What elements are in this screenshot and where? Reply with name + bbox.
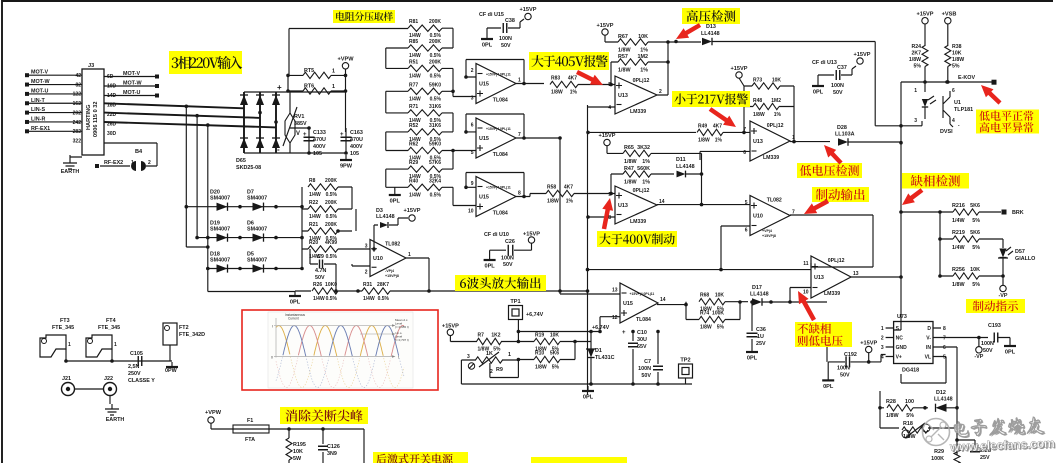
svg-text:8: 8 [943, 326, 946, 332]
svg-text:SM4007: SM4007 [210, 258, 230, 264]
svg-text:R29: R29 [934, 449, 944, 455]
svg-text:5K6: 5K6 [970, 203, 980, 209]
svg-text:1%: 1% [570, 90, 578, 96]
svg-text:1: 1 [131, 160, 134, 166]
svg-text:+15VPj4 0PLj11: +15VPj4 0PLj11 [486, 186, 511, 190]
svg-text:R29: R29 [409, 160, 418, 166]
svg-text:U15: U15 [479, 82, 489, 88]
svg-text:LIN-S: LIN-S [31, 107, 45, 113]
svg-text:LM339: LM339 [630, 109, 646, 115]
svg-text:10: 10 [803, 290, 809, 296]
svg-text:5%: 5% [493, 347, 501, 353]
svg-text:E-KOV: E-KOV [958, 75, 975, 81]
svg-text:TL431C: TL431C [595, 355, 615, 361]
svg-text:4: 4 [608, 105, 611, 111]
svg-text:R47: R47 [624, 166, 634, 172]
svg-text:R24: R24 [911, 44, 921, 50]
svg-text:RT6: RT6 [304, 84, 314, 90]
svg-text:4K7: 4K7 [713, 123, 722, 129]
svg-text:0.5%: 0.5% [430, 73, 442, 79]
svg-text:10D: 10D [107, 84, 117, 90]
svg-text:105: 105 [313, 151, 322, 157]
svg-text:1/8W: 1/8W [903, 434, 916, 440]
svg-text:1/8W: 1/8W [698, 137, 710, 143]
svg-text:EARTH: EARTH [106, 417, 125, 423]
svg-text:100N: 100N [638, 366, 651, 372]
svg-text:6: 6 [743, 150, 746, 156]
svg-text:31K6: 31K6 [429, 104, 441, 110]
svg-text:1: 1 [508, 352, 511, 358]
svg-text:FTA: FTA [245, 437, 255, 443]
svg-text:MOT-V: MOT-V [123, 71, 140, 77]
svg-text:R10: R10 [535, 351, 544, 357]
svg-text:SM4007: SM4007 [247, 258, 267, 264]
svg-text:J3: J3 [88, 63, 94, 69]
svg-text:C9: C9 [317, 254, 324, 260]
svg-text:100K: 100K [712, 311, 724, 317]
svg-text:CF di U10: CF di U10 [484, 232, 509, 238]
svg-text:RF-EX1: RF-EX1 [31, 126, 50, 132]
svg-text:R51: R51 [409, 59, 418, 65]
svg-text:1/8W: 1/8W [886, 413, 899, 419]
svg-text:+VPW: +VPW [205, 410, 222, 416]
svg-text:1/4W: 1/4W [952, 245, 965, 251]
svg-text:R52: R52 [409, 123, 418, 129]
svg-text:242: 242 [73, 120, 82, 126]
svg-text:25V: 25V [980, 455, 990, 461]
svg-text:0PL: 0PL [390, 199, 401, 205]
svg-text:1: 1 [408, 252, 411, 258]
svg-text:R48: R48 [753, 98, 762, 104]
svg-text:0906 115 0 32: 0906 115 0 32 [93, 102, 99, 137]
svg-text:0.5%: 0.5% [326, 192, 338, 198]
svg-text:SKD25-08: SKD25-08 [236, 165, 261, 171]
svg-text:FTE_342D: FTE_342D [179, 332, 205, 338]
svg-text:200K: 200K [429, 19, 441, 25]
svg-text:-VP: -VP [974, 354, 983, 360]
svg-text:1/4W: 1/4W [409, 73, 421, 79]
svg-text:R57: R57 [618, 54, 628, 60]
svg-text:0PL: 0PL [813, 90, 824, 96]
svg-text:7: 7 [743, 127, 746, 133]
svg-text:4K7: 4K7 [564, 185, 573, 191]
svg-text:2K7: 2K7 [911, 51, 921, 57]
svg-text:3N9: 3N9 [327, 451, 337, 457]
svg-text:+15VP: +15VP [917, 12, 934, 18]
svg-text:8: 8 [608, 215, 611, 221]
svg-text:V+: V+ [896, 355, 902, 361]
svg-text:10K: 10K [952, 51, 962, 57]
svg-text:400V: 400V [313, 144, 326, 150]
svg-text:U13: U13 [618, 203, 628, 209]
svg-text:560K: 560K [637, 166, 650, 172]
svg-text:59K0: 59K0 [429, 82, 441, 88]
svg-text:105: 105 [350, 151, 359, 157]
svg-text:R38: R38 [952, 44, 962, 50]
svg-text:0.5%: 0.5% [430, 192, 442, 198]
svg-text:9: 9 [471, 181, 474, 187]
svg-text:U1: U1 [954, 100, 961, 106]
svg-text:0PL: 0PL [482, 43, 493, 49]
svg-text:LM339: LM339 [824, 291, 840, 297]
svg-text:R71: R71 [409, 104, 418, 110]
svg-text:U10: U10 [753, 214, 763, 220]
svg-text:FT3: FT3 [60, 318, 70, 324]
svg-text:-: - [277, 145, 280, 154]
svg-text:R195: R195 [293, 442, 306, 448]
svg-text:R28: R28 [886, 399, 896, 405]
svg-text:6: 6 [952, 88, 955, 94]
svg-text:+15VP: +15VP [404, 208, 421, 214]
svg-text:10K: 10K [293, 449, 303, 455]
svg-text:HARTING: HARTING [86, 105, 92, 130]
svg-text:MOT-V: MOT-V [31, 70, 48, 76]
svg-text:V: V [296, 131, 300, 137]
svg-text:0PL: 0PL [290, 300, 301, 306]
svg-text:2: 2 [365, 269, 368, 275]
svg-text:1: 1 [332, 84, 335, 90]
svg-text:U15: U15 [623, 301, 633, 307]
svg-text:50V: 50V [503, 262, 513, 268]
svg-text:7: 7 [943, 336, 946, 342]
svg-text:10K: 10K [550, 333, 560, 339]
svg-text:100: 100 [905, 399, 914, 405]
svg-text:+VSB: +VSB [942, 12, 957, 18]
svg-text:1/8W: 1/8W [618, 48, 631, 54]
svg-text:LL103A: LL103A [835, 132, 855, 138]
svg-text:0PLj12: 0PLj12 [633, 188, 650, 194]
svg-text:14: 14 [660, 297, 666, 303]
svg-text:+: + [303, 132, 307, 138]
svg-text:50V: 50V [641, 373, 651, 379]
svg-text:3: 3 [365, 243, 368, 249]
svg-text:0PLj12: 0PLj12 [633, 78, 650, 84]
svg-text:LIN-T: LIN-T [31, 98, 45, 104]
svg-text:R77: R77 [409, 82, 418, 88]
svg-text:VL: VL [925, 355, 931, 361]
svg-text:12: 12 [612, 315, 618, 321]
svg-text:82: 82 [75, 82, 81, 88]
svg-text:R9: R9 [496, 367, 503, 373]
svg-text:C193: C193 [988, 323, 1001, 329]
svg-text:R73: R73 [753, 78, 762, 84]
svg-text:CF di U13: CF di U13 [812, 60, 837, 66]
svg-text:+15VP: +15VP [520, 7, 537, 13]
svg-text:5: 5 [608, 82, 611, 88]
svg-text:+15VP: +15VP [523, 232, 540, 238]
svg-text:385V: 385V [294, 121, 307, 127]
svg-text:3: 3 [881, 345, 884, 351]
svg-text:U15: U15 [479, 195, 489, 201]
svg-text:2: 2 [490, 369, 493, 375]
svg-text:5: 5 [471, 150, 474, 156]
svg-text:FT4: FT4 [106, 318, 116, 324]
svg-text:6D: 6D [107, 74, 114, 80]
svg-text:MOT-W: MOT-W [31, 79, 50, 85]
svg-text:GIALLO: GIALLO [1015, 256, 1035, 262]
svg-text:R74: R74 [700, 311, 709, 317]
svg-text:F1: F1 [247, 418, 253, 424]
svg-text:R20: R20 [309, 240, 318, 246]
svg-text:RT5: RT5 [304, 68, 314, 74]
svg-text:D13: D13 [706, 24, 716, 30]
svg-text:LL4148: LL4148 [750, 292, 769, 298]
svg-text:R85: R85 [409, 39, 418, 45]
svg-text:100N: 100N [499, 36, 512, 42]
svg-text:7: 7 [792, 210, 795, 216]
svg-text:0PL: 0PL [1005, 350, 1016, 356]
svg-text:14D: 14D [107, 93, 117, 99]
svg-text:1/8W: 1/8W [952, 57, 964, 63]
svg-text:U13: U13 [814, 275, 824, 281]
svg-text:1: 1 [332, 69, 335, 75]
svg-text:57K6: 57K6 [429, 160, 441, 166]
svg-text:22D: 22D [107, 112, 117, 118]
svg-text:1/4W: 1/4W [409, 96, 421, 102]
svg-text:R83: R83 [551, 76, 560, 82]
svg-text:TL082: TL082 [385, 242, 400, 248]
svg-text:200K: 200K [429, 59, 441, 65]
svg-text:9: 9 [608, 192, 611, 198]
svg-text:1/4W: 1/4W [409, 192, 421, 198]
svg-text:162: 162 [73, 101, 82, 107]
svg-text:4K99: 4K99 [325, 240, 337, 246]
svg-text:0PL: 0PL [583, 395, 594, 401]
svg-text:TL084: TL084 [493, 152, 508, 158]
svg-text:0PL: 0PL [484, 264, 495, 270]
svg-text:50V: 50V [315, 275, 325, 281]
svg-text:7: 7 [518, 132, 521, 138]
svg-text:BRK: BRK [1012, 210, 1024, 216]
svg-text:LL4148: LL4148 [701, 31, 720, 37]
svg-text:100N: 100N [501, 256, 514, 262]
svg-text:1: 1 [792, 135, 795, 141]
svg-text:4.7N: 4.7N [315, 268, 326, 274]
svg-text:1K2: 1K2 [491, 333, 500, 339]
svg-text:10K: 10K [772, 78, 782, 84]
svg-text:+6,74V: +6,74V [526, 312, 544, 318]
svg-text:C36: C36 [756, 327, 766, 333]
svg-text:5: 5 [943, 355, 946, 361]
svg-text:FT2: FT2 [179, 325, 189, 331]
svg-text:GND: GND [896, 345, 908, 351]
svg-text:5%: 5% [972, 218, 980, 224]
svg-text:+: + [277, 83, 282, 92]
svg-text:1%: 1% [566, 199, 574, 205]
svg-text:+: + [622, 330, 626, 336]
svg-text:200K: 200K [325, 200, 337, 206]
svg-text:10K: 10K [970, 267, 980, 273]
svg-text:C192: C192 [844, 352, 857, 358]
svg-text:R216: R216 [952, 203, 965, 209]
svg-text:1U: 1U [757, 334, 764, 340]
svg-text:10: 10 [468, 209, 474, 215]
svg-text:TL084: TL084 [493, 211, 508, 217]
svg-text:TP2: TP2 [680, 358, 690, 364]
svg-text:U73: U73 [897, 314, 907, 320]
svg-text:LM339: LM339 [763, 155, 779, 161]
svg-text:IN: IN [926, 345, 931, 351]
svg-text:+15VP: +15VP [599, 133, 616, 139]
svg-text:+VPW: +VPW [337, 56, 354, 62]
svg-text:0PW: 0PW [165, 368, 178, 374]
svg-text:FTE_345: FTE_345 [52, 325, 74, 331]
svg-text:5: 5 [745, 200, 748, 206]
svg-text:400V: 400V [350, 144, 363, 150]
svg-text:R58: R58 [547, 185, 556, 191]
svg-text:10K: 10K [715, 293, 725, 299]
svg-text:1/8W: 1/8W [547, 199, 559, 205]
svg-text:1/8W: 1/8W [700, 325, 712, 331]
svg-text:0.5%: 0.5% [326, 214, 338, 220]
svg-text:1/8W: 1/8W [624, 159, 637, 165]
svg-text:R18: R18 [903, 421, 913, 427]
svg-text:200K: 200K [325, 178, 337, 184]
svg-text:0PLj12: 0PLj12 [767, 123, 784, 129]
svg-text:C133: C133 [313, 130, 326, 136]
svg-text:RF-EX2: RF-EX2 [104, 160, 123, 166]
svg-text:R65: R65 [624, 145, 634, 151]
svg-text:202: 202 [73, 110, 82, 116]
svg-text:+15VPj4 0PLj11: +15VPj4 0PLj11 [486, 73, 511, 77]
svg-text:R7: R7 [478, 333, 485, 339]
svg-text:4K7: 4K7 [568, 76, 577, 82]
svg-text:1%: 1% [715, 137, 723, 143]
svg-text:3: 3 [471, 96, 474, 102]
svg-text:0.5%: 0.5% [430, 96, 442, 102]
svg-text:200K: 200K [429, 39, 441, 45]
svg-text:1: 1 [881, 326, 884, 332]
svg-text:2: 2 [659, 89, 662, 95]
svg-text:2,5N: 2,5N [128, 364, 139, 370]
svg-text:U15: U15 [479, 136, 489, 142]
svg-text:1%: 1% [774, 112, 782, 118]
svg-text:1/8W: 1/8W [624, 180, 637, 186]
svg-text:2: 2 [471, 68, 474, 74]
svg-text:1/4W: 1/4W [363, 296, 375, 302]
svg-text:59K0: 59K0 [429, 142, 441, 148]
svg-text:30U: 30U [637, 337, 647, 343]
svg-text:R8: R8 [309, 178, 316, 184]
svg-text:0PL: 0PL [747, 356, 758, 362]
svg-text:C105: C105 [130, 351, 143, 357]
svg-text:1: 1 [68, 342, 71, 348]
svg-text:1%: 1% [640, 48, 648, 54]
svg-text:C38: C38 [505, 18, 515, 24]
svg-text:R31: R31 [363, 282, 372, 288]
svg-text:0PLj12: 0PLj12 [828, 258, 845, 264]
svg-text:100K: 100K [931, 456, 944, 462]
svg-text:122: 122 [73, 92, 82, 98]
svg-text:1%: 1% [640, 68, 648, 74]
svg-text:CLASSE Y: CLASSE Y [128, 378, 155, 384]
svg-text:50V: 50V [840, 373, 850, 379]
svg-text:14: 14 [659, 199, 665, 205]
svg-text:U13: U13 [618, 93, 628, 99]
svg-text:+: + [340, 132, 344, 138]
svg-text:6: 6 [943, 345, 946, 351]
svg-text:TL084: TL084 [493, 98, 508, 104]
svg-text:470U: 470U [313, 137, 326, 143]
svg-text:25V: 25V [756, 341, 766, 347]
svg-text:DG418: DG418 [902, 368, 919, 374]
svg-text:+15VPj8: +15VPj8 [385, 274, 399, 278]
svg-text:10K0: 10K0 [325, 282, 337, 288]
svg-text:1: 1 [914, 88, 917, 94]
svg-text:R26: R26 [313, 282, 322, 288]
svg-text:1: 1 [518, 78, 521, 84]
svg-text:0.5%: 0.5% [430, 53, 442, 59]
svg-text:R22: R22 [309, 200, 318, 206]
svg-text:-VP: -VP [999, 293, 1008, 299]
svg-text:V-: V- [926, 336, 931, 342]
svg-text:1/8W: 1/8W [909, 57, 921, 63]
svg-text:42: 42 [75, 73, 81, 79]
svg-text:+15VPj8: +15VPj8 [762, 234, 776, 238]
svg-text:LM339: LM339 [630, 219, 646, 225]
svg-text:0.5%: 0.5% [326, 296, 338, 302]
svg-text:FTE_345: FTE_345 [98, 325, 120, 331]
svg-text:1%: 1% [642, 180, 650, 186]
svg-text:1/4W: 1/4W [952, 218, 965, 224]
svg-text:0: 0 [271, 356, 273, 360]
svg-text:+6,74V: +6,74V [592, 325, 610, 331]
svg-text:18D: 18D [107, 103, 117, 109]
svg-text:0.5%: 0.5% [326, 254, 338, 260]
svg-text:C7: C7 [644, 359, 651, 365]
svg-text:R256: R256 [952, 267, 965, 273]
svg-text:+15VP: +15VP [442, 324, 459, 330]
svg-text:EARTH: EARTH [61, 169, 80, 175]
svg-text:R219: R219 [952, 230, 965, 236]
svg-text:1/8W: 1/8W [952, 282, 965, 288]
svg-text:+VPj4: +VPj4 [762, 229, 772, 233]
svg-text:U10: U10 [373, 256, 383, 262]
svg-text:C37: C37 [837, 65, 847, 71]
svg-text:J22: J22 [104, 376, 113, 382]
svg-text:+15VP: +15VP [597, 23, 614, 29]
svg-text:50V: 50V [501, 43, 511, 49]
svg-text:5K6: 5K6 [970, 230, 980, 236]
svg-text:D65: D65 [236, 158, 246, 164]
svg-text:5%: 5% [972, 282, 980, 288]
svg-text:322: 322 [73, 138, 82, 144]
svg-text:9PW: 9PW [340, 164, 353, 170]
svg-text:+15VPj4 0PLj11: +15VPj4 0PLj11 [486, 127, 511, 131]
svg-text:SM4007: SM4007 [210, 196, 230, 202]
svg-text:D28: D28 [837, 125, 847, 131]
svg-text:470U: 470U [350, 137, 363, 143]
svg-text:MOT-W: MOT-W [123, 81, 142, 87]
svg-text:MOT-U: MOT-U [31, 88, 48, 94]
svg-text:R49: R49 [698, 123, 707, 129]
svg-text:5%: 5% [952, 64, 960, 70]
svg-text:1/4W: 1/4W [309, 192, 321, 198]
svg-text:B4: B4 [135, 149, 143, 155]
svg-text:R68: R68 [700, 293, 709, 299]
svg-text:11: 11 [803, 261, 809, 267]
svg-text:1K: 1K [486, 351, 493, 357]
svg-text:2: 2 [148, 160, 151, 166]
svg-text:I: I [272, 325, 273, 329]
svg-text:J21: J21 [62, 376, 71, 382]
svg-text:50V: 50V [833, 90, 843, 96]
svg-text:100N: 100N [831, 83, 844, 89]
svg-text:+15VP: +15VP [860, 341, 877, 347]
svg-text:30D: 30D [107, 131, 117, 137]
svg-text:0.5%: 0.5% [378, 296, 390, 302]
svg-text:MOT-U: MOT-U [123, 90, 140, 96]
